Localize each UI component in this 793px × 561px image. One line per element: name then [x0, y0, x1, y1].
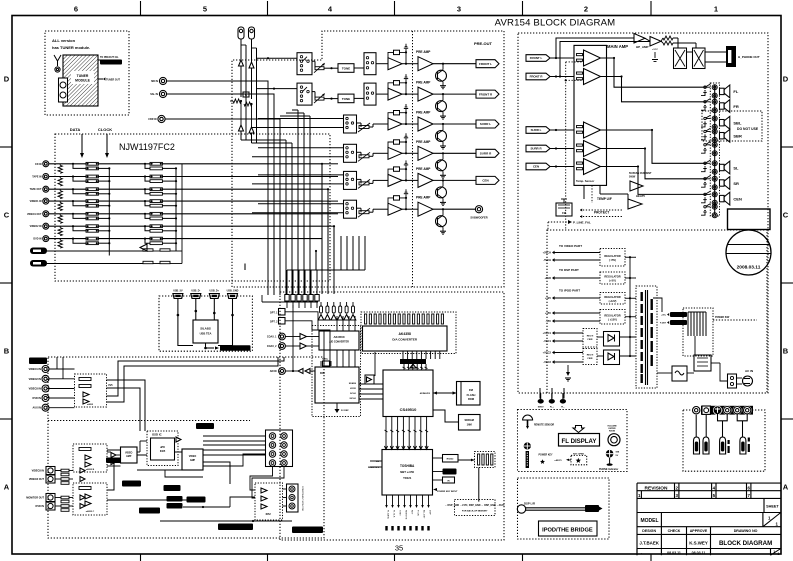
rear terminal dashed box [683, 410, 765, 471]
usb controller SILABS [193, 320, 218, 343]
svg-text:5V5 OUT: 5V5 OUT [171, 506, 180, 508]
svg-text:MCLK: MCLK [350, 398, 357, 400]
svg-text:u4053: u4053 [87, 403, 94, 406]
svg-text:NJW1197FC2: NJW1197FC2 [119, 142, 175, 152]
supply arrow +VCC1 [552, 331, 555, 335]
dac output bus bar [402, 351, 404, 359]
speaker relay FL [704, 86, 706, 88]
svg-text:has TUNER module.: has TUNER module. [52, 45, 90, 50]
video buffer extra 1 [111, 453, 116, 458]
svg-text:4052: 4052 [265, 513, 271, 516]
svg-text:MD IN: MD IN [151, 80, 158, 83]
svg-text:AMP: AMP [190, 459, 196, 462]
ground transistor FRONT L [440, 85, 446, 87]
op-amp buffer FRONT R [388, 88, 402, 100]
decoupling cap FRONT L [405, 49, 407, 53]
speaker terminal pair SBL [712, 116, 717, 121]
decoupling cap SURR L [405, 109, 407, 113]
wire relay to jack [687, 51, 693, 53]
svg-text:MODULE: MODULE [75, 79, 90, 83]
wire protect dashed arrows [580, 209, 622, 211]
svg-text:FL-: FL- [561, 406, 565, 408]
ground NC [701, 150, 705, 153]
wire MD IN [167, 81, 268, 295]
video jack lower DVD IN [46, 502, 55, 510]
svg-text:+5VD: +5VD [544, 276, 551, 280]
resistor network TUNER R [143, 261, 153, 263]
regulator REG3 [600, 293, 625, 305]
ground transistor SURR L [440, 145, 446, 147]
ipod dock block [539, 521, 598, 536]
svg-text:.: . [641, 551, 642, 555]
wire video loop to NJW [56, 357, 58, 369]
svg-text:DVD IN: DVD IN [33, 397, 42, 400]
wire adc top pins [336, 316, 338, 331]
resistor TAPE OUT C [150, 188, 162, 191]
op-amp buffer SURR R [388, 147, 402, 159]
wire 4053B outputs [107, 449, 121, 451]
svg-text:SW5V: SW5V [538, 406, 545, 408]
wire opamp to driver FRONT R [402, 93, 418, 95]
main amp input connector FRONT L [526, 55, 550, 62]
pre-out connector SURR R [476, 149, 499, 157]
pre-out connector FRONT L [476, 60, 499, 68]
flash memory [457, 382, 481, 406]
wire bundle to dsp strip [286, 270, 288, 294]
diode D1 [239, 60, 244, 66]
svg-text:TAPE OUT: TAPE OUT [30, 188, 42, 191]
svg-text:AVR154 BLOCK DIAGRAM: AVR154 BLOCK DIAGRAM [495, 18, 616, 29]
svg-text:Temp. Sensor: Temp. Sensor [576, 179, 595, 183]
svg-text:D: D [783, 75, 789, 84]
wire TAPE IN mid [98, 176, 150, 178]
wire TAPE IN out [162, 176, 322, 178]
dac AK4358 dashed box [361, 312, 456, 354]
ipod dashed box [518, 478, 610, 539]
svg-text:DRAWING NO: DRAWING NO [734, 529, 758, 533]
rear plug DC OUT [740, 437, 746, 454]
speaker icon CEN [720, 195, 725, 201]
wire video extra runs [55, 470, 61, 472]
main amp input connector CEN [526, 163, 550, 170]
pre-amp driver SURR R [418, 146, 433, 160]
wire FM down [240, 39, 242, 60]
main amp block outline [574, 45, 607, 185]
wire COAX_2 [285, 345, 300, 347]
speaker relay FR [704, 101, 706, 103]
video switch 4053 C dashed box [73, 483, 107, 515]
volume pot SURR R [359, 155, 369, 158]
svg-text:VIDEO/OSD SIGNAL FOR: VIDEO/OSD SIGNAL FOR [224, 526, 247, 529]
video switch 4053 B dashed box [73, 444, 107, 472]
svg-text:SUBWOOFER: SUBWOOFER [470, 216, 487, 220]
rear terminal jack 5 [733, 406, 742, 415]
label S-VID OUT [106, 458, 121, 464]
thermal fuse label 1 [670, 312, 687, 317]
svg-text:REGULATOR: REGULATOR [604, 275, 620, 279]
wire VIDEO1 IN mid [98, 200, 150, 202]
speaker icon SBL [720, 120, 725, 126]
video inner dashed divider [48, 420, 250, 422]
rear terminal jack 6 [743, 406, 752, 415]
component video input grid [266, 430, 293, 467]
label DVD OUT [164, 485, 181, 491]
rear plug SW +5V [694, 437, 700, 454]
op-amp buffer SUBWOOFER [388, 203, 402, 215]
pre-out connector FRONT R [476, 90, 499, 98]
rear plug REMOTE [720, 437, 726, 454]
svg-text:IPOD/THE BRIDGE: IPOD/THE BRIDGE [542, 528, 593, 534]
op-amp buffer CEN [388, 174, 402, 186]
svg-text:DVD IN: DVD IN [33, 238, 41, 241]
wire opamp to driver FRONT L [402, 63, 418, 65]
input jack VIDEO2 IN [43, 223, 49, 229]
resistor CD IN A [86, 162, 98, 165]
svg-text:CLOCK: CLOCK [98, 127, 112, 132]
resistor VIDEO1 IN C [150, 200, 162, 203]
op-amp buffer SURR L [388, 118, 402, 130]
power switch assembly [683, 308, 713, 356]
wire -15V [554, 320, 600, 322]
feedback cap SURR R [388, 142, 394, 150]
speaker terminal pair CEN [712, 192, 717, 197]
date stamp circle 2008.03.11 [726, 230, 771, 275]
svg-text:A: A [4, 483, 10, 492]
speaker icon SR [720, 180, 725, 186]
svg-text:NBT u-050: NBT u-050 [400, 470, 414, 474]
power amp SURR R [584, 141, 601, 157]
wire DVD IN row [49, 238, 86, 240]
input jack TAPE OUT [43, 186, 49, 192]
ground transistor SUBWOOFER [440, 230, 446, 232]
wire regulator bus [629, 257, 631, 356]
svg-text:REVISION: REVISION [645, 485, 668, 491]
wire video control bus [160, 520, 292, 522]
decoupling cap FRONT R [405, 79, 407, 83]
ruler ticks bottom [140, 554, 142, 561]
svg-text:B: B [783, 347, 789, 356]
wire CDR IN [165, 119, 280, 295]
svg-text:PROTECT: PROTECT [594, 211, 609, 215]
ground NC [701, 212, 705, 215]
wire switch row2 inputs [256, 88, 297, 90]
wire dsp to micon bundle [385, 417, 387, 450]
svg-text:6465: 6465 [160, 450, 166, 453]
phones indicator icon [606, 450, 614, 458]
wire driver to output SURR L [433, 123, 476, 125]
svg-text:H_PHONE OUT: H_PHONE OUT [738, 55, 760, 59]
wire VIDEO1 IN [49, 368, 75, 370]
svg-text:-15V: -15V [546, 319, 552, 323]
wire lower VIDEO3 IN [55, 470, 61, 472]
protection tv box [556, 203, 572, 216]
wire AM lower [251, 104, 253, 127]
resistor network TUNER L [143, 249, 153, 251]
resistor VIDEO1 IN B [86, 204, 98, 207]
preamp internal dashed divider [412, 31, 414, 287]
svg-text:DSP: DSP [429, 510, 431, 515]
wire VIDEO1 IN row [49, 200, 86, 202]
wire VIDEO1 OUT mid [98, 213, 150, 215]
wire output FRONT R [601, 77, 707, 102]
rear terminal jack 2 [702, 406, 711, 415]
svg-text:G: G [245, 93, 247, 97]
switch2 FRONT R [364, 83, 376, 105]
speaker terminal pair FR [712, 99, 717, 104]
rev mark cell [770, 549, 772, 556]
wire CD IN row [49, 163, 86, 165]
svg-text:SURR L: SURR L [480, 122, 491, 126]
buffer lower VIDEO3 IN [80, 468, 85, 473]
wire REG1 to transformer [625, 256, 636, 258]
keypad dashed box [475, 452, 496, 468]
wire VIDEO2 IN [49, 378, 75, 380]
wire output FRONT L [601, 58, 707, 87]
dsp input pin strip [285, 295, 289, 302]
component switch 4052 dashed box [255, 483, 283, 520]
decoupling cap SURR R [405, 138, 407, 142]
input jack SAL IN [159, 90, 166, 97]
label 1_AUD OUT [122, 481, 141, 487]
input jack CDR IN [158, 115, 165, 122]
pre-amp driver CEN [418, 173, 433, 187]
wire -VCC2 [554, 361, 583, 363]
resistor lower VIDEO3 IN [61, 469, 69, 472]
speaker terminal pair SL [712, 161, 717, 166]
pre-amp driver FRONT R [418, 87, 433, 101]
wire +15V [554, 312, 600, 314]
resistor R-AM [244, 102, 252, 106]
svg-text:APPROVE: APPROVE [690, 529, 708, 533]
ruler ticks left [0, 146, 12, 148]
svg-text:A/D CONVERTER: A/D CONVERTER [329, 341, 349, 344]
svg-text:THERMAL: THERMAL [674, 321, 683, 324]
wire TAPE IN row [49, 176, 86, 178]
tone control FRONT R [338, 94, 354, 103]
wire 4053A out [107, 380, 146, 431]
wire rect2 to transformer [597, 355, 604, 357]
sheet 1/1 diagonal [763, 513, 781, 527]
svg-text:D: D [4, 75, 10, 84]
svg-text:AM IN: AM IN [270, 370, 277, 373]
svg-text:1_AUD OUT: 1_AUD OUT [126, 482, 138, 485]
wire antenna bundle extra [245, 45, 247, 140]
ground CEN [701, 200, 705, 203]
preamp section dashed box [232, 31, 504, 287]
diode bridge 2 [604, 350, 620, 365]
output transistor SUBWOOFER [436, 216, 447, 227]
svg-text:2: 2 [584, 5, 588, 14]
antenna jack FM [238, 27, 244, 39]
speaker icon FR [720, 103, 725, 109]
title block table [637, 482, 781, 484]
volume pot FRONT R [315, 97, 324, 100]
ground transistor SURR R [440, 174, 446, 176]
label AV IN [29, 358, 47, 365]
svg-text:CDR IN: CDR IN [148, 118, 157, 121]
output transistor FRONT L [436, 70, 447, 81]
svg-text:STBY: STBY [399, 510, 401, 516]
ruler ticks right [781, 146, 793, 148]
ground transistor FRONT R [440, 115, 446, 117]
wire switch to pot SUBWOOFER [357, 207, 362, 209]
svg-text:1: 1 [773, 550, 775, 554]
svg-text:AUX IN: AUX IN [33, 407, 42, 410]
wire input FRONT R [550, 76, 574, 78]
feedback cap CEN [388, 169, 394, 177]
wire usb 232.5 [218, 298, 233, 345]
wire fuse connections [657, 372, 672, 374]
svg-text:FM: FM [562, 211, 566, 215]
svg-text:CS49510: CS49510 [400, 407, 417, 412]
svg-text:CEN: CEN [533, 165, 539, 169]
svg-text:SHEET: SHEET [766, 505, 779, 509]
ground SBL [701, 124, 705, 127]
volume pot SURR L [359, 126, 369, 129]
svg-text:B: B [4, 347, 10, 356]
supply arrow +12V [552, 296, 555, 300]
svg-text:OPT_1: OPT_1 [270, 312, 278, 315]
feedback cap SUBWOOFER [388, 198, 394, 206]
speaker output bus [714, 85, 716, 214]
svg-text:3: 3 [457, 5, 461, 14]
buffer lower DVD IN [80, 504, 85, 509]
svg-text:ALL version: ALL version [52, 38, 76, 43]
thermal fuse label 2 [670, 320, 687, 325]
svg-text:COAX_2: COAX_2 [267, 345, 277, 348]
wire tuner out [98, 78, 103, 80]
wire +VCC1 [554, 332, 583, 334]
volume knob [608, 434, 620, 446]
svg-text:TX021: TX021 [403, 476, 412, 480]
svg-text:TO VIDEO PART: TO VIDEO PART [559, 244, 582, 248]
svg-text:DVD IN: DVD IN [36, 505, 45, 508]
wire primary top [653, 298, 662, 312]
dsp section dashed box [280, 292, 504, 540]
resistor VIDEO1 OUT B [86, 217, 98, 220]
svg-text:TUNER OUT: TUNER OUT [106, 78, 120, 81]
svg-text:FL CLK: FL CLK [393, 510, 395, 518]
svg-text:PRE AMP: PRE AMP [416, 111, 431, 115]
wire usb control out [205, 343, 207, 348]
dac pin header [365, 314, 367, 324]
speaker terminal pair SBR [712, 129, 717, 134]
pre-amp driver SURR L [418, 117, 433, 131]
wire switch to pot SURR R [357, 151, 362, 153]
svg-text:5-V5 OUT: 5-V5 OUT [200, 426, 210, 428]
main amp section dashed box [518, 33, 768, 393]
ground SL [701, 169, 705, 172]
wire SAL IN [167, 94, 274, 295]
svg-text:HP_AMP: HP_AMP [636, 45, 649, 49]
svg-text:SR: SR [733, 181, 739, 186]
wire +VCC2 [554, 352, 583, 354]
wire TUNER L row [47, 250, 143, 252]
coax input COAX_1 [279, 333, 286, 340]
power amp SURR L [584, 122, 601, 138]
wire switch rows 3-6 inputs [258, 118, 344, 120]
buffer lower VIDEO3 OUT [80, 477, 85, 482]
wire switch to volume FRONT L [312, 60, 315, 62]
input attenuator arrows [298, 369, 303, 374]
title block columns [660, 527, 662, 556]
svg-text:08.03.11: 08.03.11 [692, 551, 706, 555]
decoupling cap SUBWOOFER [405, 194, 407, 198]
resistor lower DVD IN [61, 505, 69, 508]
wire switch2 to opamp FRONT R [376, 93, 388, 95]
wire hp to relay [673, 37, 678, 39]
wire pot to tone FRONT L [324, 67, 338, 69]
supply arrow -15V [552, 319, 555, 323]
label S-VID OUT 2 [139, 508, 160, 514]
feedback cap FRONT L [388, 52, 394, 60]
svg-text:FM: FM [469, 388, 474, 392]
svg-text:TO DSP PART: TO DSP PART [559, 268, 579, 272]
wire -5VCH [554, 259, 600, 261]
wire usb 214.3 [213, 298, 215, 320]
rs232 port [443, 455, 459, 463]
svg-text:6: 6 [74, 5, 78, 14]
svg-text:( ±15V): ( ±15V) [608, 317, 617, 321]
video jack lower MONITOR OUT [46, 494, 55, 502]
fl display dashed box [518, 410, 628, 472]
wire +5VCH [554, 252, 600, 254]
rear connector mount strip [701, 406, 753, 415]
svg-text:5V REF: 5V REF [341, 410, 349, 412]
op-amp buffer FRONT L [388, 58, 402, 70]
svg-text:+VCC: +VCC [652, 49, 658, 51]
svg-text:TONE: TONE [342, 67, 350, 71]
volume pot FRONT L [315, 67, 324, 70]
wire REG3 to transformer [625, 297, 636, 299]
label VIDEO/OSD SIGNAL [218, 524, 253, 531]
wire dir to dsp [359, 383, 383, 385]
wire driver to output CEN [433, 179, 476, 181]
wire switch down [694, 336, 696, 355]
resistor VIDEO1 OUT D [150, 217, 162, 220]
svg-text:USB_GND: USB_GND [227, 289, 239, 292]
supply arrow -VCC2 [552, 360, 555, 364]
svg-text:PHONE Indicator: PHONE Indicator [599, 468, 618, 471]
wire grid to 4052 [250, 467, 273, 491]
digital receiver DIR [315, 367, 359, 403]
dir receiver dashed box [312, 326, 361, 417]
svg-text:DATA: DATA [70, 127, 81, 132]
wire branch TAPE IN [72, 175, 74, 177]
micon bottom pins [386, 495, 388, 505]
svg-text:PRE AMP: PRE AMP [416, 81, 431, 85]
svg-text:FRONT L: FRONT L [530, 56, 543, 60]
svg-text:FR: FR [733, 104, 738, 109]
svg-text:SILABS: SILABS [200, 327, 211, 331]
svg-text:KEY: KEY [411, 510, 413, 515]
input jack MD IN [159, 77, 166, 84]
svg-text:P-DET: P-DET [660, 323, 667, 325]
input jack TAPE IN [43, 174, 49, 180]
component monitor jacks [287, 484, 299, 512]
svg-text:uKEY5: uKEY5 [555, 460, 563, 462]
svg-text:SDATA: SDATA [349, 382, 357, 385]
wire FL to hp amp [556, 38, 634, 58]
wire keypad [458, 459, 475, 461]
wire rect1 to transformer [597, 336, 604, 338]
main amp input connector SURR R [526, 145, 550, 152]
svg-text:KNOB: KNOB [609, 431, 616, 433]
power knob icon [524, 442, 531, 449]
wire driver to output FRONT R [433, 93, 476, 95]
video amp B [182, 449, 203, 470]
label TO MONITOR [292, 527, 323, 534]
